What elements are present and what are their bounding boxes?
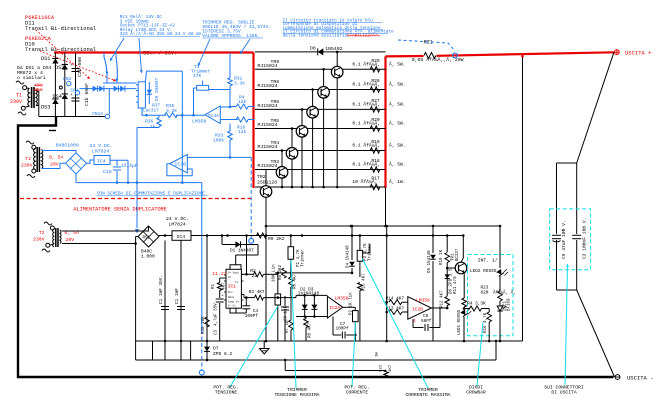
svg-text:3.3k: 3.3k (234, 81, 245, 87)
transistor TR8 MJ15024 (318, 87, 330, 99)
svg-text:Ã‚ 5W.: Ã‚ 5W. (389, 61, 406, 68)
svg-text:230V: 230V (10, 99, 22, 105)
wire base/emitter vertical of TR6 (312, 90, 314, 188)
svg-text:C9 47uF 100 V.: C9 47uF 100 V. (561, 220, 567, 259)
svg-text:Ninv: Ninv (228, 295, 235, 299)
svg-text:MJ15024: MJ15024 (258, 163, 278, 169)
svg-text:0, 5A: 0, 5A (49, 155, 64, 161)
svg-text:TENSIONE MASSIMA: TENSIONE MASSIMA (274, 392, 319, 398)
diode D5 1N4148 (432, 226, 434, 253)
svg-text:1.000: 1.000 (141, 254, 155, 260)
svg-text:Vc: Vc (228, 276, 232, 279)
svg-text:MJ15024: MJ15024 (258, 122, 278, 128)
capacitor C3 4,7uF 35V (219, 303, 221, 341)
svg-text:Lac317: Lac317 (143, 109, 159, 114)
wire IC2A output (343, 306, 356, 308)
wire output bus down from rail (385, 188, 387, 226)
svg-text:10 ÃfÂ¼Ã‚: 10 ÃfÂ¼Ã‚ (352, 178, 377, 185)
wire T2 lower to bridge (62, 227, 149, 232)
svg-text:LM358: LM358 (335, 296, 349, 302)
resistor R29 0.1 ohm 5W. (370, 67, 380, 73)
wire coil top to long vertical (145, 71, 182, 82)
resistor R36 1k (157, 118, 162, 127)
wire secondary to CN1A (39, 116, 105, 118)
diode DS1 (52, 58, 58, 63)
op-amp IC2A (327, 296, 342, 318)
svg-text:C15: C15 (103, 169, 112, 175)
svg-text:R36: R36 (145, 119, 154, 125)
resistor R7 1K (289, 320, 294, 330)
resistor R2 22 (254, 272, 264, 277)
svg-text:DI USCITA: DI USCITA (551, 390, 577, 396)
resistor R4 12k (236, 104, 248, 109)
svg-text:Trimmer: Trimmer (368, 243, 373, 261)
wire base/emitter vertical of TR2 (265, 170, 267, 227)
svg-text:C2 100nF 100 V.: C2 100nF 100 V. (582, 218, 588, 259)
wire TR1 base link (447, 267, 455, 269)
wire IC3B plus input to tap (187, 156, 251, 158)
svg-text:USCITA +: USCITA + (625, 50, 651, 57)
cyan callout DIODI CROWBAR (477, 322, 483, 386)
wire IC3A minus input (220, 119, 238, 121)
wire IC1 column x246.5 (246, 236, 248, 275)
svg-text:Transil Bi-directional: Transil Bi-directional (25, 26, 96, 32)
svg-text:USCITA -: USCITA - (627, 375, 653, 382)
resistor R18 0.1 ohm 5W. (370, 167, 380, 173)
svg-text:Ã‚ 1W.: Ã‚ 1W. (389, 178, 406, 185)
svg-text:LM358: LM358 (416, 297, 430, 303)
resistor R35 3,3k (165, 113, 178, 118)
svg-text:C2b 50m: C2b 50m (77, 57, 83, 77)
svg-text:Cl: Cl (235, 280, 239, 284)
svg-text:R5 3K2: R5 3K2 (279, 264, 283, 280)
red dashed divider (20, 198, 251, 200)
wire T2 to bridge (41, 151, 76, 153)
wire blue dashdot x251 tap (250, 157, 252, 238)
svg-text:4K7: 4K7 (389, 364, 393, 372)
zener D7 ZPD 8.2 (204, 347, 210, 352)
svg-text:100Pf: 100Pf (245, 314, 259, 319)
svg-text:DS3: DS3 (41, 105, 50, 111)
wire base/emitter vertical of TR8 (323, 69, 325, 187)
svg-text:LM7824: LM7824 (169, 222, 186, 228)
diode D1 1N4007 (222, 244, 258, 246)
svg-text:C1: C1 (159, 298, 164, 304)
wire contact2 down (116, 80, 118, 83)
svg-text:0.1 ÃfÂ¼Ã‚: 0.1 ÃfÂ¼Ã‚ (352, 61, 380, 68)
terminal blue tap on rail (453, 53, 458, 58)
arrow to relay contact (110, 38, 124, 61)
svg-text:V+ Vout: V+ Vout (228, 272, 239, 275)
wire IC2B output to R12 (431, 307, 447, 309)
svg-text:2x1N4148: 2x1N4148 (298, 292, 319, 297)
arrow to trimmer T3 (198, 39, 210, 66)
resistor R1 4K7 (217, 283, 222, 291)
resistor R20 0.1 ohm 5W. (370, 126, 380, 132)
wire LED2 column (499, 226, 501, 268)
wire blue vertical x202 to pot (201, 183, 203, 330)
svg-text:R22: R22 (380, 364, 384, 372)
svg-text:1Ã‚ÂµF: 1Ã‚ÂµF (121, 162, 138, 169)
svg-text:DS2: DS2 (55, 65, 64, 71)
diode D4 1N4148 (351, 226, 353, 260)
resistor R12 4K7 (445, 297, 450, 306)
svg-text:BC327: BC327 (456, 248, 460, 261)
dashed cyan box INT 1 (468, 255, 514, 336)
wire thick return frame (18, 117, 614, 378)
svg-text:IC4: IC4 (177, 234, 186, 240)
arrow to R31 (240, 39, 250, 54)
op-amp IC3B (170, 154, 188, 173)
svg-text:Trimmer: Trimmer (301, 249, 306, 267)
terminal T2 primary bottom (32, 169, 36, 173)
wire R2 row to D4 node (275, 272, 352, 274)
diode DS2 (62, 64, 68, 69)
wire output cap right branch (576, 163, 578, 234)
svg-text:D1 1N4007: D1 1N4007 (230, 249, 254, 254)
svg-text:25A: 25A (34, 87, 43, 93)
capacitor C4 100Pf (245, 303, 247, 306)
terminal T2 lower primary bottom (46, 243, 50, 247)
terminal T2 primary top (32, 145, 36, 149)
resistor R19 0.1 ohm 5W. (370, 148, 380, 154)
wire contact bar (103, 82, 137, 84)
wire emitter row 1 (255, 68, 386, 70)
wire cap block bottom (557, 289, 577, 291)
svg-text:0.1 ÃfÂ¼Ã‚: 0.1 ÃfÂ¼Ã‚ (352, 101, 380, 108)
svg-text:0.1 ÃfÂ¼Ã‚: 0.1 ÃfÂ¼Ã‚ (352, 81, 380, 88)
terminal T1 primary top (23, 86, 27, 90)
svg-text:D6 ZPD 3¸3: D6 ZPD 3¸3 (450, 268, 454, 294)
svg-text:LED2 ROSSO: LED2 ROSSO (470, 269, 497, 274)
resistor R28 0.1 ohm 5W. (370, 87, 380, 93)
svg-text:LM358: LM358 (192, 119, 207, 125)
svg-text:820: 820 (481, 291, 489, 296)
svg-text:100k: 100k (213, 138, 224, 144)
svg-text:D9 1N4007: D9 1N4007 (155, 77, 160, 101)
svg-text:20V: 20V (50, 162, 59, 168)
capacitor C9 47uF 100V (552, 234, 561, 236)
svg-text:C1: C1 (175, 298, 180, 304)
SCR SE1 BT169 (499, 301, 501, 306)
wire diagonal to USCITA- (577, 290, 615, 377)
wire output cap left branch (556, 163, 558, 234)
wire IC3B feedback loop (167, 164, 192, 176)
wire bus y=360 (136, 359, 496, 361)
transistor TR3 MJ15024 (276, 167, 288, 179)
resistor R30 10K vertical (205, 317, 210, 327)
cyan callout SUI CONNETTORI (565, 264, 568, 385)
ground symbol (263, 341, 265, 348)
LED1 ROSSO (460, 309, 468, 316)
transistor TR6 MJ15024 (307, 106, 319, 118)
svg-text:CN1A: CN1A (92, 111, 103, 117)
svg-text:R1: R1 (212, 283, 216, 289)
svg-text:Ã‚ 5W.: Ã‚ 5W. (389, 120, 406, 127)
resistor R22 4K7 1W (384, 370, 389, 377)
svg-text:R30 10K: R30 10K (202, 316, 206, 334)
capacitor C1b 1mF (180, 241, 182, 361)
wire line y=370.5 (285, 370, 386, 372)
red rail top-left horizontal (54, 51, 254, 53)
terminal USCITA + circle (614, 50, 619, 55)
svg-text:0.1 ÃfÂ¼Ã‚: 0.1 ÃfÂ¼Ã‚ (352, 142, 380, 149)
svg-text:+: + (70, 63, 73, 68)
diode DI6 blue (114, 86, 119, 92)
transistor TR9 MJ15024 (331, 66, 343, 78)
svg-text:1mF 35V.: 1mF 35V. (159, 275, 164, 296)
svg-text:R6 4K7: R6 4K7 (294, 273, 298, 289)
svg-text:R11 470: R11 470 (454, 276, 458, 294)
svg-text:230V: 230V (33, 237, 45, 243)
svg-text:R12 4K7: R12 4K7 (440, 290, 444, 308)
svg-text:INT. 1/: INT. 1/ (478, 258, 498, 264)
svg-text:T2: T2 (25, 156, 31, 162)
wire blue ground bus y=182.6 (76, 182, 202, 184)
red rail left vertical collector bus (252, 53, 254, 189)
svg-text:2SD1128: 2SD1128 (257, 180, 277, 186)
relay RL1 coil box (138, 82, 145, 108)
wire emitter row 3 (255, 108, 386, 110)
svg-text:R7 1K: R7 1K (286, 320, 290, 333)
trimmer P3 4,7K (357, 250, 362, 261)
svg-text:12k: 12k (238, 99, 247, 105)
cyan callout POT REG CORRENTE (352, 322, 356, 387)
wire x386.7 vertical (386, 226, 388, 341)
regulator IC1 box (226, 269, 241, 308)
capacitor C7 100Pf (332, 317, 334, 336)
wire relay to CN1A (108, 89, 110, 115)
svg-text:20V: 20V (66, 237, 75, 243)
svg-text:IC1: IC1 (228, 284, 237, 290)
svg-text:LED1 ROSSO: LED1 ROSSO (458, 309, 462, 335)
svg-text:230V: 230V (21, 163, 33, 169)
wire R31 down to opamp (229, 86, 231, 107)
resistor R11 470 (463, 274, 465, 299)
svg-text:0.1 ÃfÂ¼Ã‚: 0.1 ÃfÂ¼Ã‚ (352, 161, 380, 168)
transistor TR2 2SD1128 (260, 186, 272, 198)
svg-text:4K7: 4K7 (222, 282, 226, 290)
svg-text:12k: 12k (238, 129, 247, 135)
svg-text:ZPD 8.2: ZPD 8.2 (213, 351, 233, 357)
transformer T2 upper (36, 147, 38, 172)
op-amp IC2B (408, 297, 432, 320)
wire DS1 vertical (54, 53, 56, 117)
svg-text:IC2B: IC2B (412, 307, 423, 313)
capacitor C2 100nF 100V (572, 234, 581, 236)
svg-text:R10 1K: R10 1K (440, 249, 444, 265)
node open terminal (59, 86, 62, 89)
red dotted callout to diode pair 2 (40, 51, 116, 81)
svg-text:MJ15024: MJ15024 (258, 83, 278, 89)
resistor R17 10 ohm 1W. (370, 184, 380, 190)
cyan callout TRIMMER TENSIONE MASSIMA (291, 260, 296, 388)
svg-text:CORRENTE: CORRENTE (346, 390, 369, 396)
svg-text:T1: T1 (16, 93, 22, 99)
svg-text:TR2: TR2 (257, 174, 266, 180)
svg-text:R15 4K7: R15 4K7 (363, 273, 367, 291)
svg-text:0.1 ÃfÂ¼Ã‚: 0.1 ÃfÂ¼Ã‚ (352, 120, 380, 127)
svg-text:ALIMENTATORE SENZA DUPLICATORE: ALIMENTATORE SENZA DUPLICATORE (73, 207, 166, 213)
resistor R8 4K7 (304, 319, 309, 328)
wire diagonal to USCITA+ (577, 52, 614, 163)
wire base/emitter vertical of TR9 (336, 52, 338, 187)
red rail top-right horizontal to output (386, 55, 424, 58)
transistor TR5 MJ15024 (296, 126, 308, 138)
diode DI5 blue (93, 86, 98, 92)
resistor R10 1K (446, 236, 448, 253)
svg-text:47K: 47K (193, 73, 202, 79)
wire bridge left to vertical (136, 236, 138, 238)
svg-text:1k: 1k (150, 124, 156, 130)
svg-text:IC4: IC4 (97, 158, 106, 164)
wire emitter row 6 (255, 169, 386, 171)
transformer T2 lower (55, 228, 57, 247)
svg-text:R3´4K7: R3´4K7 (249, 290, 265, 295)
svg-text:1N5402: 1N5402 (325, 46, 342, 52)
capacitor C6 1nF (284, 296, 286, 306)
wire opamp output line (147, 114, 167, 116)
wire diode line CN1 to relay (80, 88, 137, 90)
wire vertical aux from rail x=524 (522, 56, 524, 341)
transformer T1 (31, 87, 33, 108)
svg-text:IC3A: IC3A (208, 113, 220, 119)
wire cap block top (557, 162, 577, 164)
svg-text:D4 1N4148: D4 1N4148 (347, 245, 351, 268)
red dotted callout to diode pair 1 (36, 30, 90, 79)
zener D6 ZPD 3,3 (446, 272, 448, 296)
svg-text:STABILIZZATA.: STABILIZZATA. (347, 33, 381, 38)
minus mark (49, 130, 56, 132)
resistor R16 12k (236, 117, 248, 122)
capacitor C15 1uF (116, 160, 118, 166)
wire base/emitter vertical of TR3 (281, 151, 283, 188)
wire DS2 vertical (64, 53, 66, 117)
svg-text:R8 4K7: R8 4K7 (309, 322, 313, 338)
capacitor C2b 50mF (72, 68, 80, 70)
op-amp IC3A (205, 106, 220, 124)
capacitor C1b 50mF (72, 97, 80, 99)
svg-text:MJ15024: MJ15024 (258, 144, 278, 150)
resistor R31 3.3k (228, 78, 233, 86)
svg-text:LM7824: LM7824 (92, 148, 109, 154)
svg-text:P3 4,7K: P3 4,7K (364, 243, 368, 261)
svg-text:C6 1nF: C6 1nF (285, 305, 289, 321)
wire emitter bus y=226 (266, 225, 500, 227)
svg-text:CROWBAR: CROWBAR (466, 390, 486, 396)
svg-text:R14 4K7: R14 4K7 (386, 297, 405, 302)
trimmer P1 4,7K (288, 247, 294, 260)
cyan callout TRIMMER CORRENTE MASSIMA (362, 258, 428, 388)
svg-text:MJ15024: MJ15024 (258, 103, 278, 109)
svg-text:D7: D7 (213, 346, 219, 352)
terminal T1 primary bottom (21, 106, 25, 110)
wire IC4 output (110, 159, 128, 161)
svg-text:C1b 50mF: C1b 50mF (84, 83, 90, 106)
svg-text:24 V.DC.: 24 V.DC. (90, 143, 113, 149)
svg-text:IC3B: IC3B (175, 162, 187, 168)
svg-text:Ã‚ 5W.: Ã‚ 5W. (389, 101, 406, 108)
svg-text:Ã‚ 5W.: Ã‚ 5W. (389, 142, 406, 149)
svg-text:3,3k: 3,3k (166, 108, 177, 114)
svg-text:RS1: RS1 (143, 237, 151, 241)
terminal USCITA - circle (615, 375, 620, 380)
svg-text:Comp Vz: Comp Vz (228, 301, 239, 304)
wire blue drop to lower board arrow (136, 183, 138, 228)
capacitor C1a 1mF 35V (164, 241, 166, 361)
red rail right vertical output bus (384, 56, 386, 188)
diode D8 1N5402 (318, 48, 324, 55)
resistor R21 0,05 ohm 20W on output rail (424, 53, 436, 59)
wire main 24V bus y=235.5 (159, 235, 172, 237)
svg-text:11.23: 11.23 (212, 271, 227, 277)
svg-text:DS1: DS1 (41, 56, 50, 62)
wire IC1 bottom pins (230, 308, 246, 313)
svg-text:+: + (70, 93, 73, 98)
wire emitter row 4 (255, 128, 386, 130)
diode DS4 (62, 94, 68, 99)
wire tie verticals 341-360 (152, 341, 154, 360)
wire base/emitter vertical of TR5 (301, 109, 303, 187)
svg-text:V- Cs: V- Cs (228, 305, 236, 308)
wire filter cap vertical (75, 53, 77, 117)
svg-text:CORRENTE MASSIMA: CORRENTE MASSIMA (405, 392, 450, 398)
svg-text:Inv: Inv (228, 291, 233, 294)
wire bridge to IC4 (87, 160, 95, 163)
resistor R27 0.1 ohm 5W. (370, 107, 380, 113)
wire emitter row 2 (255, 89, 386, 91)
wire x207 vertical (206, 236, 208, 361)
svg-text:P1 4,7K: P1 4,7K (297, 249, 301, 267)
wire bus y=341 (136, 340, 523, 342)
diode DS3 (52, 99, 58, 104)
arrow to relay coil (139, 38, 142, 73)
svg-text:IC2A: IC2A (329, 305, 340, 311)
svg-text:dalla tensione ausiliaria: dalla tensione ausiliaria (283, 33, 348, 38)
svg-text:C3: C3 (215, 329, 219, 335)
relay coil bottom wire (142, 108, 147, 115)
svg-text:1mF: 1mF (175, 288, 180, 296)
terminal T2 lower primary top (50, 226, 54, 230)
svg-text:ÃfÂ¼Ã‚ Ã‚: ÃfÂ¼Ã‚ Ã‚ (493, 291, 516, 296)
resistor R15 4K7 (358, 283, 363, 291)
svg-text:22: 22 (252, 273, 258, 279)
svg-text:BT169: BT169 (508, 298, 512, 311)
svg-text:o similari: o similari (17, 75, 46, 81)
svg-text:0,05 ÃfÂ¼Ã‚,Ã‚ 20W: 0,05 ÃfÂ¼Ã‚,Ã‚ 20W (412, 56, 464, 63)
svg-text:Ã‚ 5W.: Ã‚ 5W. (389, 161, 406, 168)
svg-text:T2: T2 (39, 230, 45, 236)
blue dashed link to rail tap (398, 40, 455, 51)
svg-text:56Pf: 56Pf (421, 319, 432, 324)
resistor R5 3K2 (282, 268, 287, 278)
wire TR2 emitter down (265, 198, 267, 236)
wire IC3A plus input (220, 106, 230, 108)
svg-text:TENSIONE: TENSIONE (215, 390, 238, 396)
svg-text:4,7uF 35V: 4,7uF 35V (215, 303, 219, 326)
svg-text:CN2: CN2 (63, 76, 72, 82)
svg-text:D8: D8 (310, 45, 316, 51)
svg-text:R9 2K2: R9 2K2 (268, 236, 285, 242)
svg-text:100Pf: 100Pf (336, 327, 350, 332)
wire trimmer to R31 (209, 89, 230, 91)
dashed cyan box output caps (550, 209, 591, 270)
bridge rectifier RS1 (138, 226, 159, 247)
svg-text:TR1: TR1 (452, 253, 456, 261)
diode D9 1N4007 (148, 82, 150, 104)
wire collector row 0 with D8 (255, 51, 386, 53)
svg-text:Ã‚ 5W.: Ã‚ 5W. (389, 81, 406, 88)
